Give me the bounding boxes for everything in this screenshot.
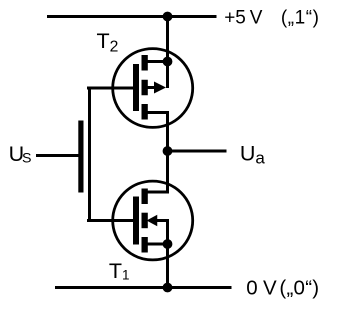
svg-text:+5: +5 [224,7,246,28]
wire: output node to Ua terminal [168,150,227,153]
wire: gate bus to T1 gate [87,219,133,222]
wire: 0V ground rail [55,286,232,289]
wire: +5V supply rail [47,15,217,18]
node: output junction dot [163,146,173,156]
wire: gate bus to T2 gate [87,87,133,90]
T2 bulk tie vertical wire [166,62,169,89]
svg-text:(„1“): („1“) [281,7,320,28]
svg-text:0 V: 0 V [246,277,277,300]
T2 channel segment (drain side) [142,104,148,120]
T2 gate electrode bar [133,64,139,111]
T1 bulk arrow (points toward channel: n-channel) [147,215,158,227]
node: T2 source/bulk junction dot [163,57,173,67]
wire: T1 source down to 0V rail [166,244,169,289]
T1 gate electrode bar [133,197,139,245]
transistor T1 (n-channel MOSFET) [113,181,193,260]
wire: Us input lead [36,154,79,157]
T1 bulk lead [156,219,169,222]
svg-text:V: V [250,7,263,28]
T2 channel segment (source side) [142,55,148,71]
node: junction dot on 0V rail [163,283,173,293]
T2 bulk arrow (points away from channel: p-channel) [154,82,166,94]
wire: output node down to T1 drain [166,151,169,192]
T1 source lead [147,243,169,246]
T1 channel segment (source side) [142,237,148,253]
node: T1 source/bulk junction dot [163,239,173,249]
node: junction dot on +5V rail [163,12,173,22]
svg-text:S: S [22,150,31,166]
T1 envelope circle [113,181,193,260]
T2 source lead [147,60,169,63]
T1 bulk tie vertical wire [166,219,169,244]
T2 channel segment (bulk) [142,80,148,96]
T1 channel segment (drain side) [142,189,148,205]
T2 envelope circle [113,49,193,128]
T1 channel segment (bulk) [142,213,148,229]
T1 drain lead [147,191,169,194]
T2 drain lead [147,111,169,114]
input gate plate bar [78,121,83,193]
svg-text:(„0“): („0“) [279,277,319,300]
wire: +5V rail down to T2 source [166,16,169,63]
wire: gate bus vertical (T2 gate to T1 gate) [88,87,91,223]
T2 bulk lead [147,86,157,89]
wire: T2 drain down to output node [166,111,169,151]
transistor T2 (p-channel MOSFET) [113,49,193,128]
